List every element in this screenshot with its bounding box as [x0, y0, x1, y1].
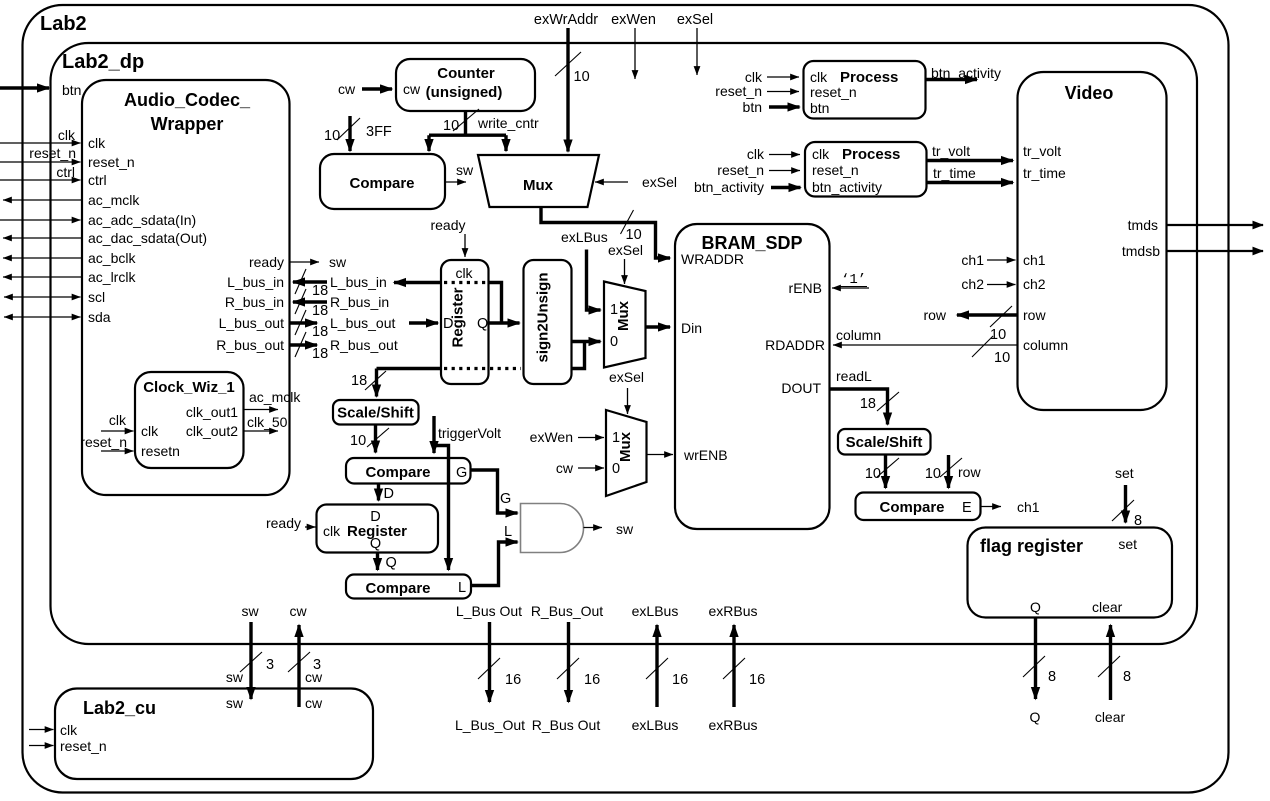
- svg-text:D: D: [443, 316, 453, 332]
- mux U3 data Mux: [604, 282, 646, 368]
- svg-text:sw: sw: [616, 521, 634, 537]
- slash row bus: [940, 458, 962, 477]
- svg-text:reset_n: reset_n: [812, 162, 859, 178]
- svg-text:exSel: exSel: [677, 12, 713, 28]
- wire exLBus bus into mux input 1: [587, 250, 601, 311]
- svg-text:Q: Q: [1030, 709, 1041, 725]
- svg-text:reset_n: reset_n: [29, 145, 76, 161]
- svg-text:Video: Video: [1065, 83, 1114, 103]
- wire Scale/Shift output down to Compare E: [884, 455, 887, 489]
- wire reset_n into Clock_Wiz_1: [101, 450, 134, 452]
- wire write_cntr branch to Mux: [504, 135, 507, 151]
- slash R_Bus_Out: [557, 658, 579, 679]
- svg-text:sw: sw: [226, 669, 244, 685]
- svg-text:D: D: [384, 486, 394, 502]
- wire G output to AND gate: [471, 470, 518, 513]
- svg-text:Mux: Mux: [617, 431, 634, 462]
- svg-text:clk: clk: [58, 127, 76, 143]
- wire bottom bus solid left of Register: [377, 367, 442, 370]
- svg-text:L_bus_out: L_bus_out: [330, 315, 396, 331]
- svg-text:R_bus_out: R_bus_out: [216, 337, 284, 353]
- svg-text:tmds: tmds: [1128, 217, 1158, 233]
- register U2 sample Register: [441, 260, 489, 384]
- svg-text:18: 18: [312, 283, 328, 299]
- svg-text:scl: scl: [88, 289, 105, 305]
- svg-text:set: set: [1115, 465, 1134, 481]
- slash L_bus_in: [295, 269, 306, 294]
- wire btn_activity output: [926, 78, 978, 81]
- wire ready to sw: [290, 261, 319, 263]
- block Lab2_cu: [55, 689, 373, 780]
- svg-text:0: 0: [610, 334, 618, 350]
- block Compare E: [856, 493, 981, 521]
- svg-text:row: row: [923, 307, 946, 323]
- svg-text:BRAM_SDP: BRAM_SDP: [701, 233, 802, 253]
- wire L_bus_out into register D: [409, 321, 438, 324]
- wire row output of Video: [957, 313, 1018, 316]
- svg-text:18: 18: [860, 396, 876, 412]
- wire exSel into data mux: [624, 259, 626, 284]
- svg-text:Lab2: Lab2: [40, 13, 87, 35]
- wire Q output loop to clk row: [489, 283, 502, 324]
- svg-text:Q: Q: [386, 555, 397, 571]
- wire clk input: [0, 142, 81, 144]
- svg-text:10: 10: [574, 69, 590, 85]
- underline of '1': [840, 286, 867, 288]
- svg-text:18: 18: [312, 346, 328, 362]
- svg-text:ac_mclk: ac_mclk: [88, 192, 140, 208]
- svg-text:10: 10: [994, 350, 1010, 366]
- svg-text:ac_lrclk: ac_lrclk: [88, 269, 136, 285]
- svg-text:8: 8: [1048, 669, 1056, 685]
- svg-text:L_bus_out: L_bus_out: [219, 315, 285, 331]
- svg-text:ac_bclk: ac_bclk: [88, 250, 136, 266]
- svg-text:tr_volt: tr_volt: [1023, 143, 1061, 159]
- svg-text:clk_out1: clk_out1: [186, 404, 238, 420]
- wire Mux output to BRAM WRADDR: [541, 207, 670, 258]
- svg-text:ready: ready: [249, 254, 284, 270]
- slash exRBus: [723, 658, 745, 679]
- svg-text:tr_time: tr_time: [933, 165, 976, 181]
- svg-text:tr_volt: tr_volt: [932, 143, 970, 159]
- svg-text:0: 0: [612, 461, 620, 477]
- svg-text:clk: clk: [812, 146, 830, 162]
- block Scale/Shift right: [838, 429, 931, 455]
- wire clk into Lab2_cu: [29, 729, 54, 731]
- wire Q output into sign2Unsign: [489, 321, 520, 324]
- svg-text:18: 18: [312, 303, 328, 319]
- svg-text:WRADDR: WRADDR: [681, 251, 744, 267]
- slash exWrAddr bus: [555, 52, 581, 76]
- svg-text:resetn: resetn: [141, 443, 180, 459]
- svg-text:reset_n: reset_n: [80, 434, 127, 450]
- wire cw into wrENB mux: [578, 467, 604, 469]
- slash set bus: [1112, 500, 1134, 521]
- svg-text:exSel: exSel: [608, 242, 643, 258]
- svg-text:ch1: ch1: [1023, 252, 1046, 268]
- svg-text:btn_activity: btn_activity: [694, 179, 764, 195]
- wire exWrAddr bus down to Mux: [566, 28, 569, 152]
- wire rENB tied high: [832, 287, 869, 289]
- svg-text:cw: cw: [556, 460, 574, 476]
- svg-text:clk: clk: [810, 69, 828, 85]
- svg-text:ready: ready: [430, 217, 465, 233]
- svg-text:exRBus: exRBus: [708, 717, 757, 733]
- svg-text:cw: cw: [305, 669, 323, 685]
- svg-text:btn: btn: [743, 99, 762, 115]
- wire exWen down: [634, 28, 636, 79]
- svg-text:reset_n: reset_n: [88, 154, 135, 170]
- svg-text:Compare: Compare: [349, 175, 414, 192]
- svg-text:exLBus: exLBus: [632, 603, 679, 619]
- wire reset_n into Process trigger: [769, 170, 800, 172]
- slash write_cntr: [453, 109, 479, 131]
- svg-text:Compare: Compare: [365, 464, 430, 481]
- svg-text:Compare: Compare: [879, 499, 944, 516]
- svg-text:Din: Din: [681, 320, 702, 336]
- svg-text:R_bus_in: R_bus_in: [225, 294, 284, 310]
- svg-text:sw: sw: [226, 695, 244, 711]
- svg-text:L: L: [458, 580, 466, 596]
- svg-text:row: row: [1023, 307, 1046, 323]
- block Clock_Wiz_1: [135, 372, 244, 468]
- svg-text:16: 16: [505, 672, 521, 688]
- wire reset_n into Lab2_cu: [29, 745, 54, 747]
- wire triggerVolt crossing Compare box: [447, 458, 450, 484]
- svg-text:Q: Q: [1030, 599, 1041, 615]
- wire ch1 into Video: [987, 259, 1016, 261]
- svg-text:3FF: 3FF: [366, 124, 392, 140]
- slash R_bus_in: [295, 289, 306, 314]
- block Compare G: [346, 458, 471, 484]
- svg-text:10: 10: [350, 433, 366, 449]
- svg-text:L_Bus_Out: L_Bus_Out: [455, 717, 525, 733]
- svg-text:exRBus: exRBus: [708, 603, 757, 619]
- wire Q down to Compare L: [376, 553, 379, 571]
- wire 3FF constant into Compare: [348, 116, 351, 151]
- svg-text:clear: clear: [1092, 599, 1123, 615]
- slash 10 bus: [877, 458, 899, 477]
- wire sign2Unsign output into mux input 0: [572, 340, 601, 343]
- block Process btn: [804, 61, 926, 119]
- wire 18-bit tap down to Scale/Shift: [375, 369, 378, 397]
- wire triggerVolt stub down into Compare G: [432, 416, 435, 453]
- wire triggerVolt branch down into Compare L: [434, 446, 449, 571]
- wire bottom dotted row through Register: [444, 367, 486, 370]
- wire DOUT readL to Scale/Shift: [830, 389, 888, 425]
- svg-text:clk: clk: [109, 412, 127, 428]
- svg-text:L_bus_in: L_bus_in: [330, 274, 387, 290]
- svg-text:exWen: exWen: [530, 429, 573, 445]
- slash WRADDR bus: [621, 210, 634, 234]
- svg-text:clk: clk: [88, 135, 106, 151]
- svg-text:E: E: [962, 500, 972, 516]
- svg-text:ch1: ch1: [1017, 499, 1040, 515]
- svg-text:Lab2_dp: Lab2_dp: [62, 51, 144, 73]
- slash cw bus: [288, 652, 310, 672]
- wire R_bus_in stub into box: [293, 300, 327, 303]
- wire btn input: [0, 86, 49, 89]
- svg-text:exLBus: exLBus: [632, 717, 679, 733]
- svg-text:Lab2_cu: Lab2_cu: [83, 698, 156, 718]
- svg-text:exSel: exSel: [609, 369, 644, 385]
- svg-text:sda: sda: [88, 309, 111, 325]
- wire ch2 into Video: [987, 284, 1016, 286]
- register U5 trigger Register: [317, 505, 439, 553]
- block sign2Unsign: [524, 260, 572, 384]
- wire clear input up: [1109, 625, 1112, 700]
- svg-text:flag register: flag register: [980, 536, 1083, 556]
- block Compare L: [346, 575, 471, 599]
- wire Counter output tree: [429, 111, 506, 151]
- block Counter (unsigned): [396, 59, 535, 111]
- svg-text:exWrAddr: exWrAddr: [534, 12, 598, 28]
- slash row bus: [990, 306, 1012, 327]
- wire set bus into flag register: [1124, 485, 1127, 523]
- svg-text:btn: btn: [810, 100, 829, 116]
- wire L_bus_out stub out of box: [290, 321, 317, 324]
- svg-text:row: row: [958, 464, 981, 480]
- svg-text:10: 10: [324, 128, 340, 144]
- block Video: [1018, 72, 1167, 410]
- wire R_bus_out stub out of box: [290, 343, 317, 346]
- slash 10 bus: [367, 428, 389, 447]
- svg-text:reset_n: reset_n: [715, 83, 762, 99]
- svg-text:readL: readL: [836, 368, 872, 384]
- svg-text:reset_n: reset_n: [810, 84, 857, 100]
- wire reset_n into Process btn: [767, 91, 799, 93]
- block Compare top: [320, 154, 445, 209]
- block Audio_Codec_Wrapper: [82, 80, 290, 495]
- svg-text:btn_activity: btn_activity: [812, 179, 882, 195]
- svg-text:Wrapper: Wrapper: [151, 114, 224, 134]
- svg-text:10: 10: [925, 466, 941, 482]
- svg-text:Process: Process: [842, 146, 900, 163]
- slash L_bus_out: [295, 310, 306, 335]
- svg-text:ctrl: ctrl: [88, 172, 107, 188]
- block Process trigger: [805, 142, 927, 197]
- slash readL bus: [877, 392, 899, 411]
- svg-text:3: 3: [266, 657, 274, 673]
- slash exLBus: [646, 658, 668, 679]
- svg-text:btn_activity: btn_activity: [931, 65, 1001, 81]
- slash clear bus: [1098, 656, 1120, 677]
- svg-text:cw: cw: [403, 81, 421, 97]
- slash sw bus: [240, 652, 262, 672]
- svg-text:10: 10: [443, 118, 459, 134]
- svg-text:L_bus_in: L_bus_in: [227, 274, 284, 290]
- slash 3FF bus: [337, 118, 360, 140]
- wire data Mux output to Din: [646, 325, 671, 328]
- wire tmdsb output: [1167, 250, 1264, 252]
- wire clk into Process trigger: [769, 154, 800, 156]
- wire tmds output: [1167, 224, 1264, 226]
- slash column bus: [972, 336, 993, 357]
- svg-text:sw: sw: [241, 603, 259, 619]
- svg-text:18: 18: [312, 324, 328, 340]
- wire L output to AND gate: [471, 542, 518, 586]
- wire exSel down: [696, 28, 698, 75]
- svg-text:ac_adc_sdata(In): ac_adc_sdata(In): [88, 212, 196, 228]
- svg-text:Scale/Shift: Scale/Shift: [846, 434, 923, 451]
- block flag register: [968, 528, 1173, 618]
- svg-text:column: column: [1023, 337, 1068, 353]
- svg-text:clk_50: clk_50: [247, 414, 288, 430]
- wire exSel into wrENB mux: [627, 388, 629, 414]
- svg-text:ctrl: ctrl: [56, 164, 75, 180]
- svg-text:ac_mclk: ac_mclk: [249, 389, 301, 405]
- wire clk into Process btn: [767, 76, 799, 78]
- wire sda bidirectional: [4, 316, 81, 318]
- slash R_bus_out: [295, 332, 306, 357]
- svg-text:exLBus: exLBus: [561, 229, 608, 245]
- wire ctrl input: [0, 179, 81, 181]
- svg-text:column: column: [836, 327, 881, 343]
- wire column to RDADDR: [833, 344, 1018, 346]
- svg-text:sign2Unsign: sign2Unsign: [535, 272, 552, 362]
- svg-text:16: 16: [749, 672, 765, 688]
- svg-text:RDADDR: RDADDR: [765, 337, 825, 353]
- svg-text:exWen: exWen: [611, 12, 656, 28]
- svg-text:16: 16: [584, 672, 600, 688]
- svg-text:tr_time: tr_time: [1023, 165, 1066, 181]
- wire clk into Clock_Wiz_1: [101, 430, 134, 432]
- svg-text:R_bus_in: R_bus_in: [330, 294, 389, 310]
- wire D output down to Register: [377, 484, 380, 501]
- svg-text:exSel: exSel: [642, 174, 677, 190]
- svg-text:G: G: [500, 491, 511, 507]
- svg-text:clk: clk: [141, 423, 159, 439]
- svg-text:clk: clk: [60, 722, 78, 738]
- svg-text:ready: ready: [266, 515, 301, 531]
- wire sw output of Compare: [445, 181, 466, 183]
- svg-text:R_bus_out: R_bus_out: [330, 337, 398, 353]
- wire btn_activity into Process trigger: [771, 186, 801, 189]
- svg-text:10: 10: [865, 466, 881, 482]
- svg-text:cw: cw: [289, 603, 307, 619]
- wire tr_time to Video: [927, 181, 1014, 184]
- svg-text:DOUT: DOUT: [781, 380, 821, 396]
- wire tr_volt to Video: [927, 159, 1014, 162]
- svg-text:16: 16: [672, 672, 688, 688]
- wire ready into Register: [464, 234, 466, 257]
- svg-text:10: 10: [626, 227, 642, 243]
- svg-text:R_Bus Out: R_Bus Out: [532, 717, 601, 733]
- svg-text:‘1’: ‘1’: [841, 272, 866, 288]
- svg-text:reset_n: reset_n: [717, 162, 764, 178]
- svg-text:8: 8: [1123, 669, 1131, 685]
- block BRAM_SDP: [675, 224, 830, 529]
- wire ac_bclk output: [3, 257, 82, 259]
- svg-text:tmdsb: tmdsb: [1122, 243, 1160, 259]
- block Scale/Shift left: [333, 400, 419, 425]
- svg-text:triggerVolt: triggerVolt: [438, 425, 501, 441]
- wire ch1 output of Compare E: [981, 506, 1002, 508]
- svg-text:sw: sw: [456, 162, 474, 178]
- svg-text:18: 18: [351, 373, 367, 389]
- wire row bus down to Compare E: [947, 455, 950, 488]
- svg-text:L_Bus Out: L_Bus Out: [456, 603, 522, 619]
- svg-text:(unsigned): (unsigned): [426, 84, 503, 101]
- svg-text:sw: sw: [329, 254, 347, 270]
- wire clk_out2 to clk_50: [244, 430, 279, 432]
- svg-text:Mux: Mux: [523, 177, 554, 194]
- wire ready into trigger Register: [305, 526, 316, 528]
- svg-text:rENB: rENB: [789, 280, 822, 296]
- wire L_bus_in from register: [394, 281, 441, 284]
- slash L_Bus Out: [478, 658, 500, 679]
- svg-text:Counter: Counter: [437, 65, 495, 82]
- svg-text:ch1: ch1: [961, 252, 984, 268]
- svg-text:clk: clk: [747, 146, 765, 162]
- svg-text:ch2: ch2: [961, 276, 984, 292]
- wire exWen into wrENB mux: [578, 437, 604, 439]
- wire ac_dac_sdata output: [3, 237, 82, 239]
- wire wrENB mux output: [647, 454, 674, 456]
- svg-text:L: L: [504, 524, 512, 540]
- svg-text:Mux: Mux: [615, 300, 632, 331]
- svg-text:Q: Q: [370, 536, 381, 552]
- svg-text:Audio_Codec_: Audio_Codec_: [124, 90, 251, 110]
- svg-text:Clock_Wiz_1: Clock_Wiz_1: [143, 379, 235, 396]
- mux U1 write-address Mux: [478, 155, 599, 207]
- svg-text:clk: clk: [455, 265, 473, 281]
- wire ac_adc_sdata input: [0, 219, 81, 221]
- svg-text:ch2: ch2: [1023, 276, 1046, 292]
- gate AND trigger: [521, 504, 584, 553]
- slash Q bus: [1023, 656, 1045, 677]
- wire bottom bus right of sign2Unsign joining mux input: [572, 342, 585, 369]
- svg-text:set: set: [1118, 536, 1137, 552]
- wire clk_out1 to ac_mclk: [244, 409, 279, 411]
- wire btn into Process btn: [769, 105, 800, 108]
- svg-text:R_Bus_Out: R_Bus_Out: [531, 603, 603, 619]
- wire reset_n input: [0, 161, 81, 163]
- svg-text:wrENB: wrENB: [683, 447, 728, 463]
- svg-text:10: 10: [990, 327, 1006, 343]
- svg-text:clk_out2: clk_out2: [186, 423, 238, 439]
- svg-text:G: G: [456, 465, 467, 481]
- wire AND output sw: [584, 527, 603, 529]
- svg-text:reset_n: reset_n: [60, 738, 107, 754]
- wire scl bidirectional: [4, 296, 81, 298]
- wire bottom dotted row through sign2Unsign: [490, 367, 569, 370]
- wire ac_mclk output: [3, 199, 82, 201]
- svg-text:cw: cw: [338, 81, 356, 97]
- wire cw into Counter: [362, 87, 392, 90]
- svg-text:Compare: Compare: [365, 580, 430, 597]
- svg-text:Scale/Shift: Scale/Shift: [337, 405, 414, 422]
- mux U4 wrENB Mux: [606, 410, 647, 496]
- wire Q output down: [1034, 618, 1037, 700]
- wire Scale/Shift output down to Compare: [374, 425, 377, 453]
- svg-text:ac_dac_sdata(Out): ac_dac_sdata(Out): [88, 230, 207, 246]
- block Lab2_dp boundary: [51, 43, 1198, 644]
- svg-text:write_cntr: write_cntr: [477, 115, 539, 131]
- wire exSel into Mux: [595, 181, 628, 183]
- wire L_bus_in stub into box: [293, 280, 327, 283]
- svg-text:cw: cw: [305, 695, 323, 711]
- slash 18 bus: [365, 371, 386, 390]
- svg-text:clk: clk: [323, 523, 341, 539]
- svg-text:clear: clear: [1095, 709, 1126, 725]
- svg-text:btn: btn: [62, 82, 81, 98]
- wire ac_lrclk output: [3, 276, 82, 278]
- svg-text:Q: Q: [477, 316, 488, 332]
- wire clk dotted row: [444, 281, 486, 284]
